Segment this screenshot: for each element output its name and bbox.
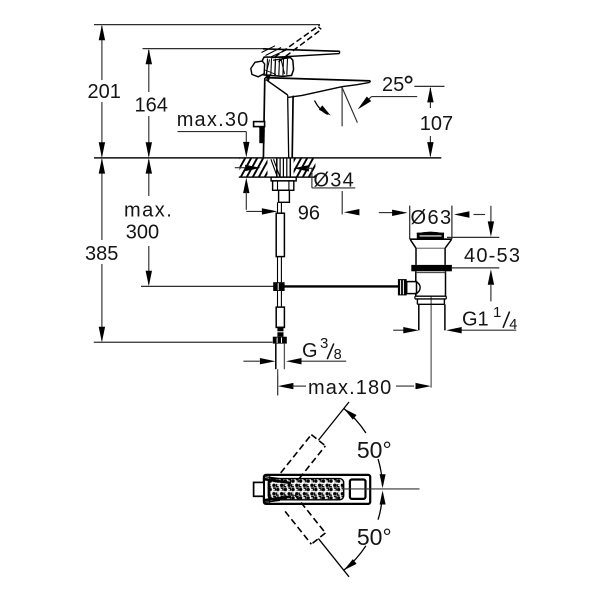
svg-text:25: 25 — [382, 74, 404, 96]
svg-text:4: 4 — [509, 317, 517, 333]
svg-text:50°: 50° — [357, 437, 392, 463]
svg-text:max.180: max.180 — [308, 377, 392, 399]
svg-text:3: 3 — [320, 335, 328, 352]
svg-text:8: 8 — [334, 347, 342, 363]
svg-text:max.: max. — [124, 199, 173, 221]
svg-text:Ø34: Ø34 — [314, 169, 355, 191]
svg-text:G1: G1 — [462, 308, 489, 330]
svg-text:107: 107 — [420, 113, 453, 135]
svg-text:G: G — [302, 340, 318, 362]
svg-text:max.30: max.30 — [177, 109, 250, 131]
svg-text:50°: 50° — [357, 524, 392, 550]
svg-text:300: 300 — [126, 222, 159, 244]
svg-text:385: 385 — [85, 243, 118, 265]
svg-text:Ø63: Ø63 — [411, 207, 453, 229]
svg-text:201: 201 — [88, 81, 121, 103]
svg-text:1: 1 — [493, 304, 501, 321]
svg-text:164: 164 — [135, 95, 168, 117]
svg-text:40-53: 40-53 — [464, 245, 521, 267]
svg-text:96: 96 — [298, 203, 320, 225]
